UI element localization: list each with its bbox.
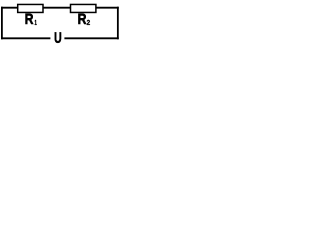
source label U	[55, 32, 61, 42]
wire: bottom-right segment	[64, 37, 118, 39]
label R1: letter R	[26, 14, 34, 24]
label R2: letter R	[78, 14, 86, 24]
wire: bottom-left segment	[1, 37, 50, 39]
wire: between R1 and R2	[42, 7, 70, 9]
resistor R1	[18, 4, 43, 12]
label R2: subscript 2	[87, 20, 90, 25]
wire: left side	[1, 7, 3, 40]
wire: right side	[117, 7, 119, 40]
label R1: subscript 1	[35, 20, 37, 25]
wire: top-right segment	[96, 7, 119, 9]
resistor R2	[71, 4, 96, 12]
wire: top-left segment	[1, 7, 18, 9]
